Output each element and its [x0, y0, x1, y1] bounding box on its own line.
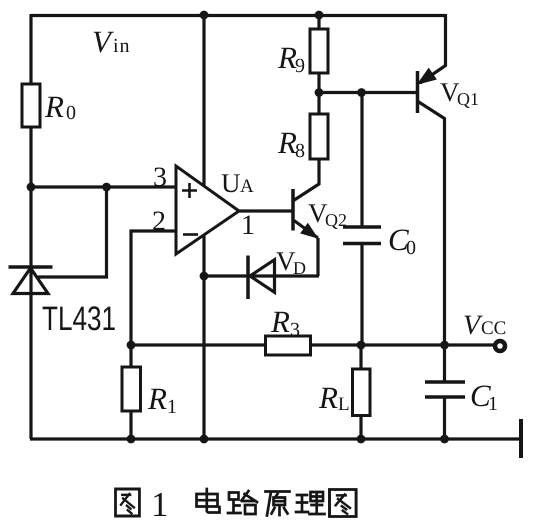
wire op-amp pin2 input — [131, 231, 176, 345]
junction dot R1 top / R3 rail — [127, 341, 136, 350]
resistor R8 — [310, 114, 328, 159]
op-amp minus sign — [183, 233, 198, 236]
transistor VQ1 emitter arrowhead — [420, 70, 435, 83]
wire VD anode branch — [204, 274, 319, 277]
junction dot VD anode / middle rail — [200, 272, 209, 281]
wire VQ1 emitter from top rail — [420, 14, 446, 83]
svg-text:U: U — [221, 168, 241, 198]
wire C0 bottom lead — [360, 244, 363, 346]
wire R8 bottom lead to VQ2 collector — [294, 159, 320, 201]
svg-text:R: R — [277, 125, 297, 160]
svg-text:8: 8 — [295, 140, 305, 162]
wire TL431 reference branch — [38, 187, 107, 277]
ground — [519, 419, 523, 458]
svg-text:R: R — [270, 304, 290, 339]
svg-text:1: 1 — [488, 393, 498, 415]
wire op-amp output pin1 to VQ2 base — [239, 209, 293, 212]
svg-text:1: 1 — [151, 485, 169, 524]
svg-text:L: L — [338, 394, 350, 415]
svg-text:0: 0 — [406, 237, 416, 259]
transistor VQ2 base bar — [291, 189, 295, 231]
transistor VQ2 emitter arrowhead — [302, 225, 315, 237]
junction dot top rail / R9 — [315, 11, 324, 20]
wire bottom ground rail — [30, 437, 521, 440]
wire C0 top lead — [360, 93, 363, 228]
junction dot top rail / middle rail — [200, 11, 209, 20]
wire C1 leads — [443, 345, 446, 439]
svg-text:3: 3 — [290, 319, 300, 341]
TL431 cathode bar — [9, 265, 53, 269]
wire top Vin rail — [31, 14, 446, 17]
resistor R3 — [266, 336, 311, 355]
svg-text:R: R — [318, 380, 338, 415]
junction dot pin3/TL431 branch — [102, 183, 111, 192]
wire R3 output rail to Vcc terminal — [131, 343, 496, 346]
diode VD cathode bar — [246, 256, 250, 300]
resistor RL — [353, 369, 371, 416]
capacitor C1 plates — [425, 382, 465, 397]
junction dot RL top / C0 bottom — [357, 341, 366, 350]
junction dot node B R9/R8 — [315, 88, 324, 97]
caption char lu — [228, 491, 257, 514]
junction dot VQ1 collector / Vcc rail — [440, 341, 449, 350]
svg-text:V: V — [463, 310, 483, 341]
junction dot middle rail bottom — [200, 435, 209, 444]
op-amp plus sign — [182, 183, 197, 198]
svg-text:R: R — [44, 89, 64, 124]
TL431 diode triangle — [13, 268, 48, 294]
wire middle vertical rail (node at x=204) — [202, 15, 205, 439]
resistor R0 — [22, 84, 40, 127]
caption char li — [296, 492, 325, 514]
resistor R1 — [122, 367, 141, 411]
wire left rail — [29, 14, 32, 439]
junction dot C1 bottom rail — [440, 435, 449, 444]
svg-text:9: 9 — [295, 55, 305, 77]
node Vcc terminal circle — [495, 341, 505, 351]
wire node B to VQ1 base — [319, 91, 418, 94]
wire VQ1 collector down to Vcc rail — [418, 102, 445, 346]
junction dot RL bottom rail — [357, 435, 366, 444]
svg-text:0: 0 — [66, 102, 76, 124]
wire R1 leads — [129, 345, 132, 439]
svg-text:1: 1 — [167, 396, 177, 418]
svg-text:1: 1 — [241, 210, 255, 241]
junction dot R1 bottom rail — [127, 435, 136, 444]
svg-text:D: D — [293, 258, 306, 278]
wire R9 top lead — [317, 15, 320, 29]
wire RL leads — [359, 345, 362, 439]
caption char yuan — [266, 492, 290, 516]
capacitor C0 plates — [343, 227, 381, 244]
resistor R9 — [310, 29, 328, 73]
svg-text:R: R — [147, 381, 167, 416]
svg-text:in: in — [113, 35, 131, 57]
svg-text:R: R — [277, 40, 297, 75]
svg-text:A: A — [240, 176, 254, 197]
transistor VQ1 base bar — [416, 71, 420, 113]
svg-text:TL431: TL431 — [42, 300, 116, 338]
svg-text:CC: CC — [481, 318, 506, 339]
wire VQ2 emitter down to VD cathode — [316, 238, 319, 276]
junction dot pin3/left rail — [27, 183, 36, 192]
caption char dian — [197, 489, 220, 513]
wire R9 bottom lead to node B — [317, 73, 320, 93]
op-amp UA triangle — [176, 166, 239, 254]
svg-text:V: V — [92, 24, 114, 59]
svg-text:Q2: Q2 — [325, 210, 347, 230]
wire R8 top lead — [317, 93, 320, 115]
diode VD triangle — [250, 260, 275, 293]
svg-text:3: 3 — [153, 162, 167, 193]
caption char tu (2nd) — [330, 490, 357, 517]
caption char tu (1st) — [116, 489, 140, 516]
svg-text:2: 2 — [152, 206, 166, 237]
transistor VQ2 emitter — [294, 221, 318, 239]
svg-text:Q1: Q1 — [457, 89, 479, 109]
junction dot node B / C0 — [357, 88, 366, 97]
wire op-amp pin3 input — [31, 185, 176, 188]
caption: 图 1 电路原理图 (hand drawn glyphs) — [116, 485, 357, 524]
